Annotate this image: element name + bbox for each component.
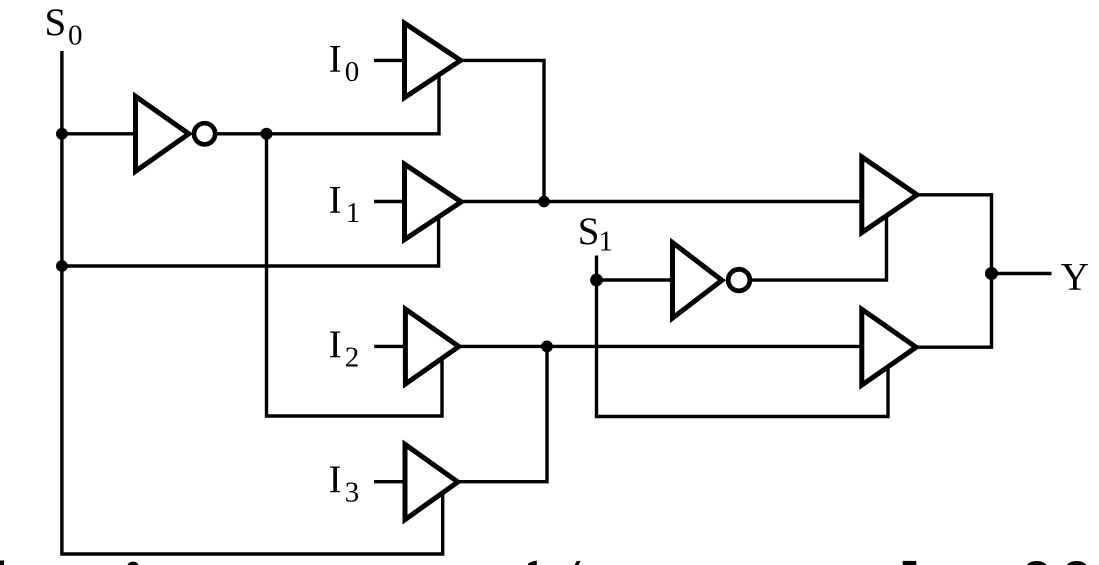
wire I3 output elbow up to node <box>456 346 547 481</box>
wire U5 output elbow up to Y node <box>914 274 992 348</box>
wire S0 to U1 input <box>62 132 137 135</box>
label S0 <box>45 1 83 51</box>
svg-text:2: 2 <box>345 341 360 373</box>
label I1 <box>329 179 361 230</box>
wire I0 output elbow down to node <box>459 60 544 201</box>
svg-text:0: 0 <box>345 56 360 88</box>
wire S1 down and to U5 enable <box>597 280 889 417</box>
label S1 <box>578 210 613 258</box>
cropped caption glyph fragment round top b <box>1067 561 1087 565</box>
inverter U2 triangle <box>673 243 722 319</box>
wire U2 output to U4 enable <box>749 210 887 280</box>
buffer I0 triangle <box>405 23 461 97</box>
buffer U4 triangle (top right) <box>862 157 917 233</box>
wire U4 output elbow down to Y node <box>915 195 992 274</box>
wire Y node to label <box>992 272 1052 275</box>
node dot Y output junction <box>985 267 998 280</box>
label I2 <box>329 323 360 374</box>
wire I1/I0 output net to U4 input <box>459 200 863 203</box>
svg-text:S: S <box>578 210 600 253</box>
wire S0' to I0 enable <box>267 70 440 134</box>
node dot I2/I3 outputs <box>541 341 553 353</box>
inverter U2 bubble <box>728 269 750 291</box>
node dot S1 branch <box>590 274 603 287</box>
label I0 <box>329 38 360 89</box>
cropped caption glyph fragment far left <box>0 561 4 565</box>
svg-text:3: 3 <box>345 477 360 509</box>
svg-text:Y: Y <box>1061 255 1089 298</box>
svg-text:I: I <box>329 179 342 222</box>
buffer I2 triangle <box>405 309 458 384</box>
node dot S0/U1 input <box>56 128 68 140</box>
wire I2/I3 output net to U5 input <box>457 345 863 348</box>
buffer I1 triangle <box>405 164 462 239</box>
cropped caption glyph fragment round top a <box>1027 561 1047 565</box>
svg-text:I: I <box>329 323 342 366</box>
inverter U1 triangle <box>136 96 189 171</box>
buffer I3 triangle <box>405 444 458 519</box>
svg-text:S: S <box>45 1 67 44</box>
svg-text:I: I <box>329 458 342 501</box>
svg-text:1: 1 <box>346 197 361 229</box>
wire S0' down and to I2 enable <box>267 134 443 416</box>
label I3 <box>329 458 360 509</box>
buffer U5 triangle (bottom right) <box>862 309 916 385</box>
svg-text:0: 0 <box>68 19 83 51</box>
cropped caption glyph fragment top of 1 <box>528 561 537 565</box>
wire I0 input <box>374 59 406 62</box>
cropped caption glyph fragment dot <box>127 562 138 565</box>
svg-text:I: I <box>329 38 342 81</box>
wire I1 input <box>374 200 406 203</box>
wire I2 input <box>374 345 407 348</box>
wire I3 input <box>374 480 407 483</box>
wire S0 to I1 enable <box>62 215 439 266</box>
wire U1 output to node <box>214 132 267 135</box>
svg-text:1: 1 <box>599 226 614 258</box>
wire S0 net (vertical trunk, bottom run, up to I3 enable) <box>62 51 443 554</box>
node dot U1 output branch <box>261 128 273 140</box>
cropped caption glyph fragment top of 4 <box>575 561 581 565</box>
cropped caption glyph fragment bar <box>903 561 917 565</box>
node dot S0/I1 enable branch <box>56 260 68 272</box>
node dot I0/I1 outputs <box>538 196 550 208</box>
inverter U1 bubble <box>194 123 215 144</box>
wire S1 to U2 input <box>597 278 675 281</box>
wire S1 stub above node <box>595 256 598 281</box>
